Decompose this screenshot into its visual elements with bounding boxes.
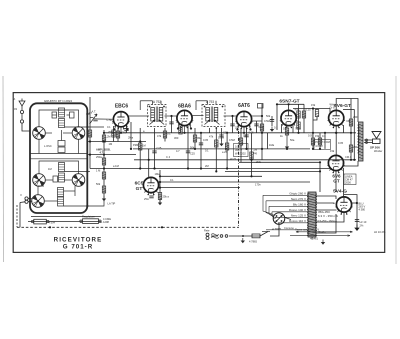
wire (270, 224, 279, 236)
padding coil L7 (58, 141, 65, 147)
svg-text:GT: GT (333, 179, 340, 184)
node d (86, 205, 88, 207)
voltage selector S1 (272, 213, 285, 231)
transformer secondary labels (318, 210, 338, 234)
svg-text:700a: 700a (295, 127, 301, 131)
wire (281, 124, 283, 133)
ground (219, 141, 223, 146)
svg-text:CM 4: CM 4 (345, 155, 352, 159)
ground (158, 200, 162, 205)
svg-text:L.OSC: L.OSC (44, 144, 52, 148)
svg-text:0.1: 0.1 (322, 134, 326, 138)
svg-text:2M: 2M (205, 164, 209, 168)
svg-text:1Ma: 1Ma (269, 143, 275, 147)
wire (293, 108, 330, 110)
wire (194, 128, 196, 149)
capacitor C10 (230, 124, 234, 126)
svg-text:L2M: L2M (106, 135, 111, 139)
svg-text:1M: 1M (48, 167, 52, 171)
resistor R5 (102, 172, 105, 179)
svg-text:Regolatore: Regolatore (82, 215, 95, 219)
svg-text:4 380: 4 380 (359, 208, 366, 212)
wire (251, 133, 253, 177)
svg-text:a 1M: a 1M (113, 164, 119, 168)
wire (271, 116, 273, 126)
capacitor C9 (219, 135, 223, 137)
wire dimension line A (290, 231, 353, 236)
coil L6 (58, 197, 64, 206)
wire (67, 114, 70, 116)
wire (319, 162, 321, 192)
capacitor C20 input box (258, 104, 264, 109)
wire (364, 140, 366, 160)
svg-text:Hz 10 2%: Hz 10 2% (374, 230, 386, 234)
svg-text:AMPL.BOB.: AMPL.BOB. (96, 148, 111, 152)
svg-text:Gr 8: Gr 8 (330, 106, 336, 110)
svg-text:PM4: PM4 (133, 143, 139, 147)
resistor R16 (297, 111, 300, 118)
capacitor C17 label box 10uF (234, 144, 249, 157)
svg-text:LA TIP: LA TIP (108, 202, 116, 206)
wire (88, 154, 136, 156)
node b (86, 126, 88, 128)
wire (63, 132, 72, 134)
wire (64, 190, 76, 192)
wire (134, 159, 356, 161)
wire (311, 237, 313, 240)
resistor R17 (302, 111, 305, 118)
svg-text:A: A (14, 97, 16, 101)
wire 6AT6 diode line (251, 120, 262, 122)
tube V3 6AT6 (235, 103, 253, 129)
svg-text:0.05: 0.05 (203, 138, 209, 142)
wire (130, 122, 132, 149)
resistor R12 (225, 143, 228, 150)
svg-text:5V4-G: 5V4-G (333, 189, 347, 195)
wire (221, 128, 223, 141)
variable capacitor C2b (72, 174, 85, 187)
wire (240, 128, 242, 162)
svg-text:0.5M: 0.5M (229, 138, 235, 142)
svg-text:15k: 15k (330, 149, 335, 153)
svg-text:100a: 100a (218, 136, 224, 140)
IF transformer T2 (196, 100, 225, 126)
svg-text:2Ma: 2Ma (256, 160, 262, 164)
coil L2 (59, 119, 65, 128)
wire (232, 116, 234, 133)
resistor R9 (179, 127, 182, 134)
capacitor C8 (199, 143, 203, 145)
wire AVC line (90, 168, 332, 170)
wire (292, 124, 294, 133)
wire (288, 104, 290, 110)
wire plate rail 6SN7 (277, 103, 304, 105)
svg-text:0.1: 0.1 (205, 149, 209, 153)
wire (256, 121, 258, 133)
resistor R27 cathode 6SN7 (285, 128, 288, 135)
svg-text:4 504: 4 504 (49, 221, 56, 225)
wire (343, 125, 345, 133)
svg-text:Nero 270 V: Nero 270 V (291, 197, 306, 201)
wire (158, 181, 310, 183)
svg-text:1M: 1M (243, 134, 247, 138)
svg-text:C25: C25 (157, 146, 162, 150)
svg-text:2Ma: 2Ma (128, 136, 134, 140)
svg-text:25k a: 25k a (163, 195, 170, 199)
ground (102, 196, 106, 201)
resistor R10 (193, 135, 196, 142)
svg-text:50k: 50k (266, 114, 271, 118)
capacitor C6 (152, 151, 156, 153)
wire (117, 127, 119, 142)
svg-text:SP 206: SP 206 (370, 146, 380, 150)
wire (62, 110, 79, 127)
wire (78, 139, 80, 153)
tube V8 rectifier 5V4-G (333, 189, 353, 215)
tube V5 6V6-GT upper (327, 103, 351, 128)
tube V4 6SN7-GT (279, 99, 299, 129)
wire (279, 196, 308, 214)
wire (89, 97, 91, 169)
wire V1 plate to T1 (128, 115, 149, 117)
wire (298, 104, 300, 133)
wire (46, 179, 54, 181)
capacitor C12 (254, 124, 258, 126)
fuse F1 (252, 234, 260, 238)
output transformer T3 (358, 122, 364, 161)
svg-text:250: 250 (353, 145, 358, 149)
svg-text:0.5-250 - 160mA: 0.5-250 - 160mA (318, 219, 338, 223)
wire (262, 231, 270, 233)
wire V1 cathode (120, 127, 122, 133)
wire phono ground (19, 203, 21, 228)
resistor R7 (139, 143, 142, 150)
wire (276, 104, 278, 130)
wire (209, 128, 211, 133)
resistor R19 (315, 110, 318, 117)
junction (261, 115, 263, 117)
wire (355, 122, 357, 133)
svg-text:0.1: 0.1 (274, 126, 278, 130)
wire 6AT6 diode line 2 (252, 115, 263, 117)
svg-text:10 µF: 10 µF (235, 144, 242, 148)
svg-text:250a: 250a (96, 155, 102, 159)
wire (316, 196, 336, 199)
variable capacitor C2a (33, 174, 46, 187)
svg-text:Rosso 110 V: Rosso 110 V (289, 219, 306, 223)
capacitor C7 (186, 151, 190, 153)
svg-text:Rete: Rete (204, 229, 210, 233)
wire (139, 128, 141, 169)
wire selector to core (285, 218, 291, 220)
tube pin stubs V2 (178, 125, 180, 129)
tuner box GRUPPO RT (30, 99, 88, 213)
wire osc feed (87, 126, 104, 128)
wire (87, 113, 90, 115)
coil L1 (59, 108, 65, 117)
svg-text:0.5M: 0.5M (264, 119, 270, 123)
resistor R21 (318, 138, 321, 145)
wire (351, 202, 357, 204)
wire (60, 110, 87, 114)
svg-text:W 25: W 25 (230, 157, 237, 161)
resistor R14 volume (250, 152, 253, 159)
wire B+ from rectifier (344, 195, 357, 228)
wire riser to output stage (343, 168, 345, 197)
wire (239, 161, 320, 163)
wire (316, 212, 344, 222)
mains plug P1 (206, 233, 228, 239)
svg-text:1M: 1M (142, 144, 146, 148)
switch SW (242, 235, 244, 237)
wire phono leads (28, 198, 32, 200)
svg-text:47k: 47k (209, 135, 214, 139)
svg-text:47k: 47k (157, 134, 162, 138)
wire (87, 196, 104, 206)
wire (316, 109, 318, 110)
tube V7 6C5 GT (135, 177, 160, 195)
svg-text:PILOT OCM: PILOT OCM (315, 140, 330, 144)
capacitor C11 (244, 135, 248, 137)
wire (52, 114, 57, 116)
svg-text:Grigio 260 V: Grigio 260 V (289, 192, 306, 196)
trimmer CT2 (70, 112, 75, 118)
wire (200, 133, 202, 169)
svg-text:15k: 15k (311, 103, 316, 107)
wire rect plate leads (316, 203, 334, 204)
svg-text:A 792: A 792 (153, 100, 161, 104)
wire (349, 196, 354, 206)
left page scan edge (2, 76, 5, 262)
wire (353, 109, 355, 159)
svg-text:6SN7-GT: 6SN7-GT (279, 99, 299, 105)
svg-text:47k: 47k (295, 108, 300, 112)
wire grid feed (98, 118, 114, 120)
wire dimension line B (290, 235, 350, 237)
wire T1 to V2 grid (165, 115, 178, 117)
wire (38, 139, 40, 153)
wire (64, 205, 88, 207)
ground (241, 238, 245, 243)
ground (270, 127, 274, 132)
svg-text:Woofer: Woofer (374, 149, 382, 153)
IF transformer T1 (140, 100, 166, 126)
wire filament rail (28, 221, 101, 223)
svg-text:1M: 1M (109, 142, 113, 146)
wire (74, 186, 76, 196)
svg-text:GRUPPO RT N 2822: GRUPPO RT N 2822 (44, 99, 73, 103)
svg-text:50a: 50a (290, 138, 295, 142)
wire (148, 149, 150, 178)
wire screen tap (343, 108, 354, 110)
phono terminal J2 (25, 200, 28, 203)
wire (180, 126, 182, 133)
wire (261, 104, 263, 160)
wire chassis ground (dashed) (17, 226, 239, 228)
svg-text:6AT6: 6AT6 (238, 103, 250, 109)
value labels (14, 97, 386, 244)
svg-text:0.25: 0.25 (306, 108, 312, 112)
wire (30, 153, 87, 155)
wire (335, 170, 337, 192)
wire (187, 126, 189, 169)
svg-text:170v: 170v (255, 182, 261, 186)
svg-text:0.1: 0.1 (167, 132, 171, 136)
wire (329, 109, 332, 115)
wire V2 cathode (184, 125, 186, 133)
capacitor C14 electrolytic (149, 196, 153, 198)
svg-text:4.7: 4.7 (176, 149, 180, 153)
svg-text:300: 300 (174, 136, 179, 140)
wire (164, 128, 166, 142)
svg-text:1Ma: 1Ma (155, 172, 161, 176)
phono terminal J1 (25, 197, 28, 200)
wire (126, 126, 128, 133)
wire (90, 117, 93, 119)
antenna (19, 99, 25, 124)
wire heater leads (316, 214, 336, 233)
trimmer arrow (90, 114, 98, 124)
svg-text:4 CAV: 4 CAV (315, 144, 323, 148)
wire OT bottom to plate (343, 161, 358, 166)
svg-text:C50: C50 (122, 131, 127, 135)
wire (226, 133, 228, 169)
svg-text:W 17202: W 17202 (235, 151, 246, 155)
svg-text:GT: GT (136, 186, 143, 192)
svg-text:4 7865: 4 7865 (272, 227, 282, 231)
wire chassis partition (dash-dot) (238, 131, 240, 227)
svg-text:C 4: C 4 (166, 155, 171, 159)
resistor R2 (116, 131, 119, 138)
svg-text:log: log (254, 151, 258, 155)
svg-text:0.05: 0.05 (249, 131, 255, 135)
resistor R18 (297, 122, 300, 129)
tube V2 6BA6 (176, 103, 194, 128)
wire (39, 161, 62, 174)
wire T2 to V3 grid (224, 115, 237, 117)
coil L5 (58, 188, 64, 197)
resistor R15 (260, 124, 263, 131)
wire (225, 170, 320, 172)
wire (160, 175, 262, 177)
wire (64, 179, 72, 181)
wire plate to OT (336, 99, 358, 123)
svg-text:2M: 2M (254, 148, 258, 152)
resistor R20 (311, 138, 314, 145)
resistor R28 (88, 130, 91, 137)
wire V3 cathode (243, 126, 245, 133)
wire (313, 117, 317, 121)
svg-text:6BA6: 6BA6 (178, 103, 191, 109)
wire (65, 126, 88, 128)
wire (38, 186, 44, 195)
capacitor C5 (93, 119, 97, 121)
svg-text:1 M: 1 M (96, 169, 100, 173)
resistor R23 (349, 145, 352, 152)
ground (285, 144, 289, 149)
svg-text:6C5: 6C5 (135, 181, 144, 187)
wire (150, 192, 152, 194)
wire comune tap (266, 229, 308, 231)
power transformer T4 (307, 192, 317, 237)
resistor R24 (158, 193, 161, 200)
resistor R4 (102, 158, 105, 165)
wire V2 plate to T2 (192, 115, 204, 117)
svg-text:Rosso 140 V: Rosso 140 V (289, 208, 306, 212)
wire (62, 161, 79, 174)
node c (86, 170, 88, 172)
svg-text:0.05: 0.05 (308, 134, 314, 138)
ground (354, 225, 360, 232)
wire chassis stub (dashed) (16, 205, 18, 227)
svg-text:4.7: 4.7 (100, 151, 104, 155)
svg-text:Nero 125 V: Nero 125 V (291, 214, 306, 218)
resistor R6 (102, 186, 105, 193)
svg-text:4 5461: 4 5461 (310, 236, 318, 240)
wire (65, 171, 88, 173)
wire (46, 132, 53, 134)
capacitor C13 (270, 120, 274, 122)
tube pin stubs V3 (238, 126, 240, 130)
svg-text:RICEVITORE: RICEVITORE (54, 237, 103, 244)
wire antenna lead (22, 123, 30, 131)
wire (159, 170, 161, 203)
coil L3 (59, 163, 65, 172)
wire (312, 109, 314, 149)
variable capacitor C3 (32, 195, 45, 208)
resistor R13 (239, 138, 242, 145)
wire (61, 130, 63, 141)
svg-text:DB: DB (347, 119, 351, 123)
svg-text:6V6-GT: 6V6-GT (334, 103, 351, 109)
svg-text:50k: 50k (96, 182, 101, 186)
wire (324, 133, 326, 149)
node a (86, 113, 88, 115)
terminal dots OT to speaker (366, 139, 368, 141)
variable capacitor C1b (72, 127, 85, 140)
wire mains (211, 235, 218, 237)
variable capacitor C1a (33, 127, 46, 140)
wire (154, 128, 156, 169)
tube pin stubs V1 (114, 125, 252, 131)
padding coil L8 (58, 147, 65, 153)
wire (319, 133, 321, 149)
wire (113, 126, 115, 142)
svg-text:Comune: Comune (284, 226, 294, 230)
tube V1 EBC6 (112, 104, 130, 130)
wire (215, 128, 217, 171)
svg-text:2000: 2000 (345, 181, 351, 185)
svg-text:C25: C25 (190, 152, 195, 156)
wire (87, 171, 90, 173)
resistor R8 (163, 131, 166, 138)
svg-text:6.3 V - 350 mA: 6.3 V - 350 mA (318, 214, 338, 218)
svg-text:EBC6: EBC6 (115, 104, 129, 110)
wire V4 cathode (286, 125, 288, 144)
wire (88, 141, 146, 143)
svg-text:50k: 50k (190, 146, 195, 150)
wire (44, 200, 58, 202)
tube V6 6V6 GT lower (327, 155, 345, 183)
svg-text:Blu 160 V: Blu 160 V (293, 203, 306, 207)
svg-text:250a: 250a (108, 130, 114, 134)
svg-text:a 25: a 25 (222, 150, 228, 154)
svg-text:G 701-R: G 701-R (63, 244, 93, 251)
svg-text:A.T.: A.T. (92, 110, 97, 114)
wire (133, 148, 310, 150)
wire (31, 215, 101, 217)
svg-text:2Ma: 2Ma (197, 136, 203, 140)
